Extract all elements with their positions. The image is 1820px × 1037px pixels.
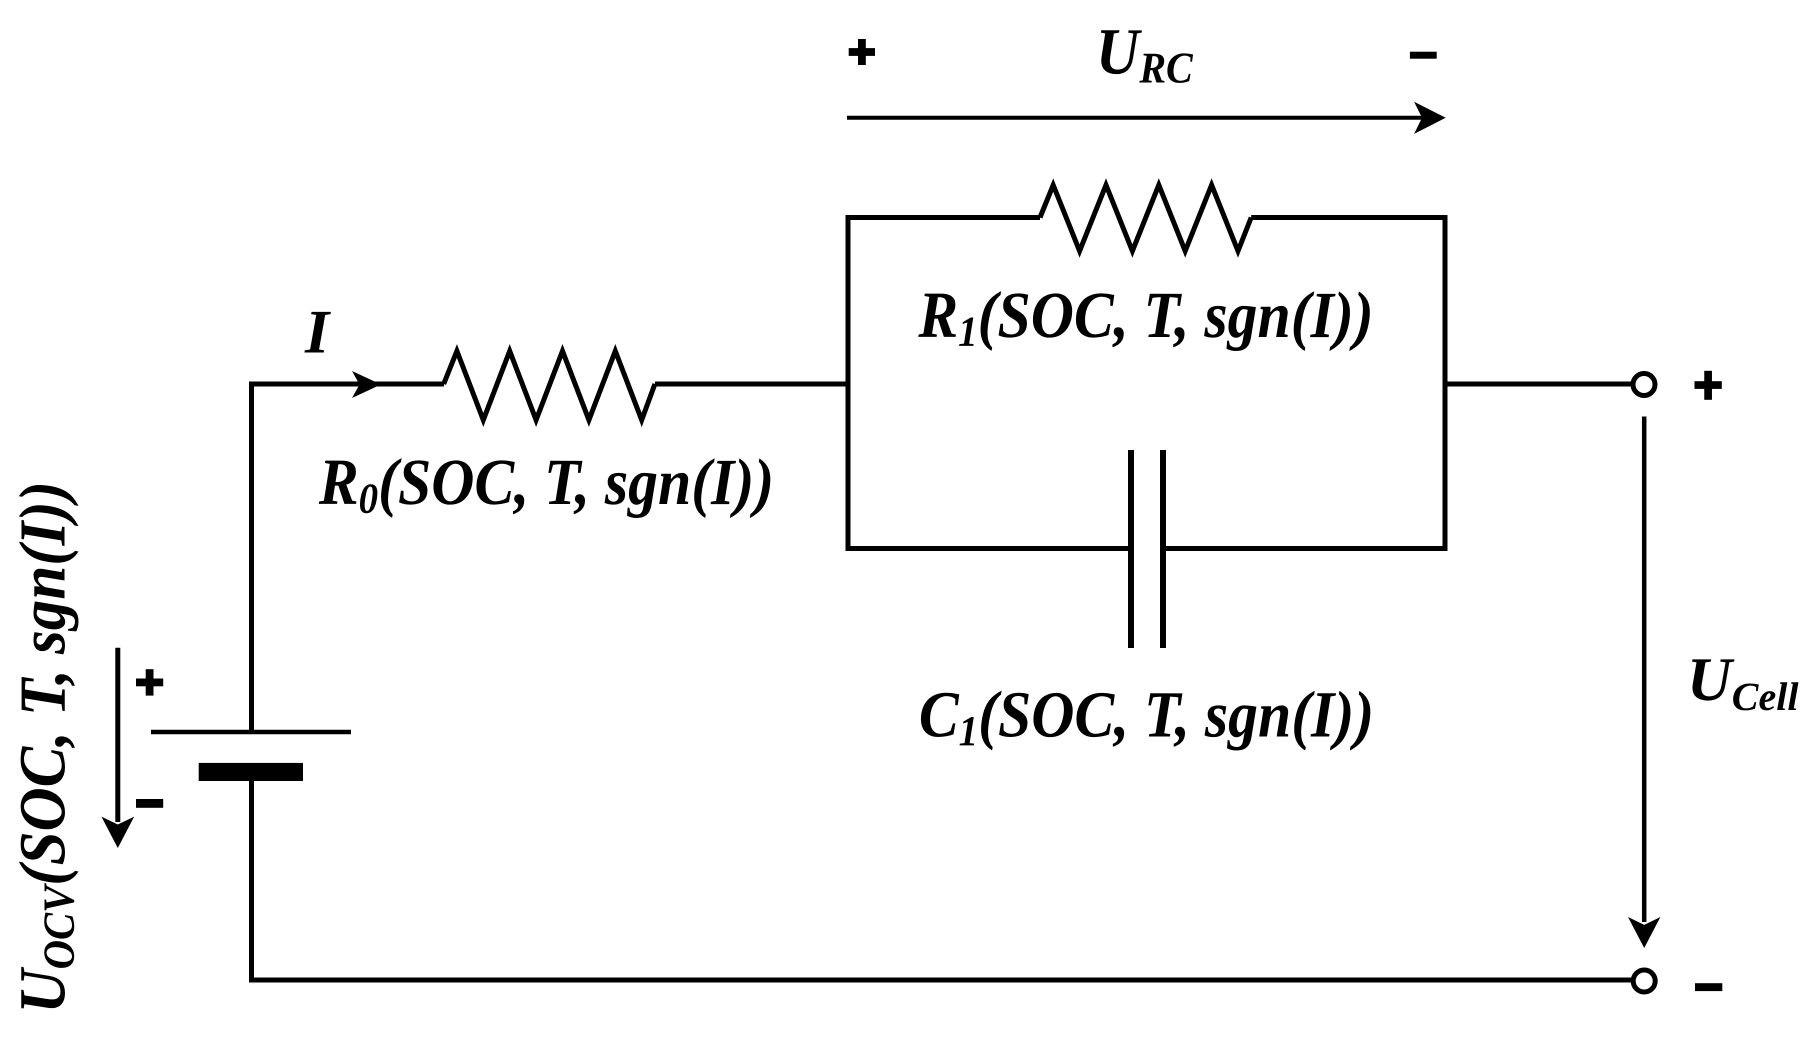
bottom wire from battery to - terminal [252,781,1635,980]
battery bottom plate (negative, thick) [199,763,303,781]
minus sign battery [136,799,163,808]
RC box top-left segment [846,215,1041,220]
resistor R1 [1040,185,1251,251]
wire left vertical and top from battery to R0 [252,384,445,732]
battery polarity arrow head [101,817,134,848]
RC box bottom-left segment [846,546,1132,551]
minus sign top (U_RC -) [1410,52,1437,59]
plus sign battery [136,679,163,687]
battery polarity arrow line [115,648,120,822]
terminal - circle [1633,970,1655,992]
arrow U_Cell head [1628,917,1660,948]
battery top plate (positive) [151,730,351,735]
svg-text:R0(SOC, T, sgn(I)): R0(SOC, T, sgn(I)) [318,445,774,522]
terminal + circle [1633,374,1655,396]
minus sign right terminal [1695,983,1722,991]
svg-text:R1(SOC, T, sgn(I)): R1(SOC, T, sgn(I)) [917,278,1373,355]
plus sign right terminal [1695,381,1722,389]
wire from R0 to RC box [655,382,848,387]
arrow U_RC line [847,116,1423,120]
RC box left edge [846,215,851,551]
resistor R0 [444,351,655,420]
RC box top-right segment [1251,215,1447,220]
arrow U_Cell line [1642,417,1647,923]
RC box right edge [1443,215,1448,551]
svg-text:I: I [304,298,331,366]
wire from box to + terminal [1445,382,1634,387]
svg-text:C1(SOC, T, sgn(I)): C1(SOC, T, sgn(I)) [919,678,1374,755]
plus sign top (U_RC +) [849,48,875,56]
capacitor C1 left plate [1128,450,1134,648]
current arrowhead I [352,371,381,398]
arrow U_RC head [1414,102,1446,134]
RC box bottom-right segment [1163,546,1448,551]
capacitor C1 right plate [1160,450,1166,648]
